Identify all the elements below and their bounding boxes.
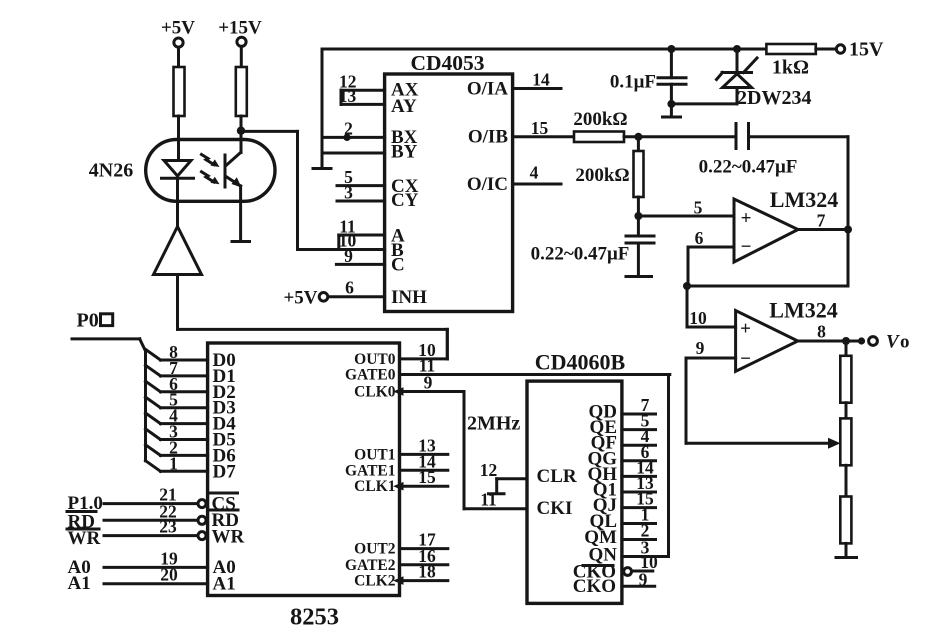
wire pin QH [622, 475, 656, 478]
wire op-amp2 output [797, 340, 858, 343]
svg-text:4N26: 4N26 [89, 160, 133, 182]
svg-text:OUT0: OUT0 [354, 351, 396, 368]
LED of 4N26 [164, 161, 191, 177]
wire resistor to 15V terminal [816, 48, 837, 51]
zener D1 2DW234 [736, 51, 739, 73]
svg-text:4: 4 [530, 163, 539, 183]
resistor on +5V line [174, 67, 185, 116]
wire pin QG [622, 459, 656, 462]
wire op-amp2 minus [686, 357, 736, 360]
svg-text:14: 14 [532, 70, 550, 90]
wire pin OUT2 [400, 547, 448, 550]
wire feedback right vertical [847, 137, 850, 286]
arrowhead wiper [828, 438, 841, 449]
svg-text:+: + [741, 208, 752, 229]
terminal Vo circle [869, 337, 878, 346]
svg-text:15: 15 [418, 467, 436, 487]
svg-text:O/IB: O/IB [468, 127, 508, 148]
bubble CS [198, 500, 206, 508]
svg-text:0.22~0.47μF: 0.22~0.47μF [699, 157, 798, 178]
ground at BY [313, 167, 331, 170]
clock arrow CLK2 [393, 576, 404, 585]
wire pin QI [622, 491, 656, 494]
wire resistor to LED anode [177, 116, 180, 161]
wire pin BX [322, 136, 385, 139]
IC U1 CD4053 body [385, 74, 513, 312]
wire junction to op-amp plus input [638, 215, 734, 218]
terminal Vo dot [858, 337, 865, 344]
wire pin D1 [146, 365, 161, 376]
svg-text:D7: D7 [213, 461, 237, 482]
svg-text:200kΩ: 200kΩ [573, 109, 627, 130]
svg-text:o: o [900, 332, 910, 353]
wire pin D5 [146, 429, 161, 440]
potentiometer RP1 [840, 418, 851, 465]
wire resistor to collector [240, 116, 243, 153]
svg-text:11: 11 [480, 490, 497, 510]
phototransistor of 4N26 [224, 155, 227, 187]
svg-text:20: 20 [160, 564, 178, 584]
ground stub at CLR [495, 479, 498, 493]
svg-text:6: 6 [695, 228, 704, 248]
svg-text:A1: A1 [213, 574, 236, 595]
wire pin QF [622, 444, 656, 447]
svg-text:C: C [391, 255, 405, 276]
resistor R1 1kohm [766, 44, 815, 54]
svg-text:CLK1: CLK1 [354, 478, 395, 495]
svg-text:−: − [740, 349, 751, 370]
wire feedback left vertical [687, 247, 690, 286]
terminal 15V [836, 45, 844, 53]
wire resistor to junction [624, 135, 736, 138]
wire pin CLK2 [400, 579, 448, 582]
svg-text:10: 10 [689, 308, 707, 328]
wire feedback horizontal [687, 285, 848, 288]
wire pin QM [622, 538, 656, 541]
svg-text:1kΩ: 1kΩ [772, 57, 809, 79]
wire LED cathode to buffer [176, 178, 179, 227]
svg-text:O/IA: O/IA [467, 79, 508, 100]
IC U4 8253 body [208, 343, 400, 596]
wire pin GATE0 to QN [400, 373, 670, 376]
wire op-amp output [798, 228, 848, 231]
wire pin D4 [146, 413, 161, 424]
node dot rail-cap [667, 45, 675, 53]
svg-text:7: 7 [817, 211, 826, 231]
svg-text:CKI: CKI [537, 498, 573, 519]
svg-text:9: 9 [344, 246, 353, 266]
capacitor C1 0.1uF [670, 51, 673, 78]
wire +15V to resistor [240, 46, 243, 67]
ground under transistor [232, 240, 250, 243]
wire pin CX [337, 184, 385, 187]
svg-text:WR: WR [212, 527, 245, 548]
node dot feedback [683, 282, 691, 290]
svg-text:18: 18 [418, 562, 436, 582]
capacitor C3 0.22~0.47uF to ground [637, 216, 640, 236]
wire tie AX-AY [340, 90, 343, 104]
wire pin O/IB [513, 135, 574, 138]
ground under C3 [626, 275, 652, 278]
wire pin A [339, 234, 385, 237]
node dot R2 junction [634, 133, 642, 141]
terminal +15V [237, 37, 246, 46]
svg-text:1: 1 [169, 453, 178, 473]
wire pin CS [104, 502, 198, 505]
svg-text:12: 12 [480, 460, 498, 480]
svg-text:O/IC: O/IC [467, 174, 508, 195]
wire BX up to top rail [321, 49, 324, 167]
wire pin CLK0 [400, 390, 465, 393]
svg-text:2MHz: 2MHz [467, 413, 520, 435]
svg-text:15: 15 [531, 118, 549, 138]
wire pin WR [104, 534, 198, 537]
svg-text:LM324: LM324 [770, 187, 838, 212]
wire pin A0 [104, 566, 208, 569]
wire +5V to resistor [177, 47, 180, 67]
node dot rail-zener [733, 45, 741, 53]
svg-text:GATE1: GATE1 [345, 462, 396, 479]
node dot R3 bottom junction [634, 212, 642, 220]
wire pin INH [328, 295, 385, 298]
svg-text:OUT1: OUT1 [354, 446, 395, 463]
wire pin GATE1 [400, 469, 448, 472]
wire minus input [688, 246, 734, 249]
resistor R4 [840, 356, 851, 403]
wire pin AY [341, 103, 385, 106]
capacitor C2 series 0.22~0.47uF [735, 124, 738, 149]
wire pin RD [104, 519, 198, 522]
svg-text:BY: BY [391, 142, 418, 163]
svg-text:CD4053: CD4053 [410, 51, 484, 75]
bubble CKO-bar [624, 568, 632, 576]
svg-text:WR: WR [68, 528, 101, 549]
svg-text:5: 5 [694, 198, 703, 218]
svg-text:+15V: +15V [218, 18, 262, 39]
svg-text:+5V: +5V [161, 18, 195, 39]
wire pin QD [622, 413, 656, 416]
ground under 0.1uF [670, 104, 673, 116]
wire pin QN to GATE0 [622, 555, 669, 558]
wire pin BY [322, 152, 385, 155]
wire pin AX [341, 89, 385, 92]
svg-text:9: 9 [424, 373, 433, 393]
wire pin QJ [622, 506, 656, 509]
svg-text:INH: INH [391, 287, 427, 308]
svg-text:+: + [740, 319, 751, 340]
clock arrow CLK1 [393, 482, 404, 491]
wire pin QL [622, 522, 656, 525]
wire pin OUT1 [400, 453, 448, 456]
wire 15V top rail [322, 48, 766, 51]
node dot cap bottom [667, 100, 675, 108]
wire pin O/IC [513, 183, 561, 186]
wire pin A1 [104, 582, 208, 585]
wire OUT0 up [446, 329, 449, 359]
terminal +5V [174, 38, 183, 47]
svg-text:CLR: CLR [537, 466, 577, 487]
svg-text:P0: P0 [77, 310, 99, 332]
svg-text:A1: A1 [68, 573, 91, 594]
node collector junction [237, 127, 245, 135]
svg-text:CLK2: CLK2 [354, 573, 396, 590]
wire pin D0 [146, 349, 161, 360]
wire pin D3 [146, 397, 161, 408]
resistor R2 200kohm horizontal [574, 132, 624, 143]
svg-text:15V: 15V [849, 39, 884, 61]
svg-text:CLK0: CLK0 [354, 384, 396, 401]
wire to op-amp2 plus [686, 286, 689, 327]
clock arrow CLK0 [393, 387, 404, 396]
svg-text:0.22~0.47μF: 0.22~0.47μF [531, 244, 630, 265]
op-amp U2B LM324 [736, 311, 798, 372]
resistor on +15V line [236, 67, 247, 116]
wire pin D6 [146, 445, 161, 456]
svg-text:9: 9 [639, 570, 648, 590]
wire output to divider [845, 341, 848, 356]
svg-text:200kΩ: 200kΩ [575, 165, 629, 186]
svg-text:LM324: LM324 [769, 298, 837, 323]
svg-text:9: 9 [696, 338, 705, 358]
wire R5 to ground [845, 543, 848, 556]
op-amp U2A LM324 [734, 199, 798, 262]
light arrow 1 [202, 155, 215, 165]
svg-text:CD4060B: CD4060B [535, 350, 626, 375]
svg-text:OUT2: OUT2 [354, 541, 396, 558]
svg-text:3: 3 [344, 183, 353, 203]
wire collector junction to B pin [243, 130, 298, 133]
svg-text:8: 8 [817, 322, 826, 342]
optocoupler U3 4N26 body [146, 140, 275, 202]
svg-text:−: − [741, 237, 752, 258]
svg-text:GATE2: GATE2 [345, 557, 396, 574]
wire pin QE [622, 428, 656, 431]
wire pin CKO-bar [632, 570, 653, 573]
wire pot to R5 [845, 465, 848, 496]
wire tie A-B [337, 235, 340, 250]
wire pin D7 [146, 461, 161, 472]
svg-text:CKO: CKO [573, 576, 616, 597]
wire pin CKO [622, 585, 655, 588]
wire emitter to ground [239, 186, 242, 240]
wire pin B [298, 248, 385, 251]
IC U5 CD4060B body [527, 381, 622, 603]
svg-text:CY: CY [391, 190, 419, 211]
svg-text:V: V [886, 332, 900, 353]
svg-text:2DW234: 2DW234 [737, 87, 811, 109]
wire pin GATE2 [400, 563, 448, 566]
svg-text:AY: AY [391, 96, 417, 117]
resistor R3 200kohm vertical [637, 137, 640, 151]
wire pin CLK1 [400, 485, 448, 488]
node dot output2 [842, 337, 850, 345]
svg-text:8253: 8253 [290, 604, 339, 627]
wire pin C [336, 263, 384, 266]
wire pin O/IA [513, 87, 561, 90]
wire minus to wiper [685, 358, 688, 443]
svg-text:0.1μF: 0.1μF [610, 72, 656, 93]
wire pin CY [337, 200, 385, 203]
node dot on BX [343, 134, 350, 141]
bubble WR [198, 532, 206, 540]
wire pin CLR [497, 477, 527, 480]
wire P0 bus [72, 337, 140, 340]
svg-text:6: 6 [345, 278, 354, 298]
buffer amplifier triangle [154, 227, 202, 275]
node dot output [844, 226, 852, 234]
wire OUT0 horizontal run [178, 328, 448, 331]
svg-text:+5V: +5V [283, 288, 317, 309]
wire pin D2 [146, 381, 161, 392]
wire cap to zener bottom [671, 102, 737, 105]
wire OUT0 vertical drop [446, 329, 449, 359]
svg-text:GATE0: GATE0 [345, 367, 396, 384]
svg-text:23: 23 [159, 517, 177, 537]
light arrow 2 [202, 172, 215, 182]
wire pin OUT0 [400, 357, 448, 360]
bubble RD [198, 516, 206, 524]
wire R4 to pot [845, 403, 848, 419]
wire buffer to OUT0 run [176, 275, 179, 330]
wire CLK0 to CKI 2MHz [463, 392, 466, 509]
resistor R5 [840, 497, 851, 544]
terminal +5V at INH [319, 293, 328, 302]
ground at divider [836, 556, 857, 559]
